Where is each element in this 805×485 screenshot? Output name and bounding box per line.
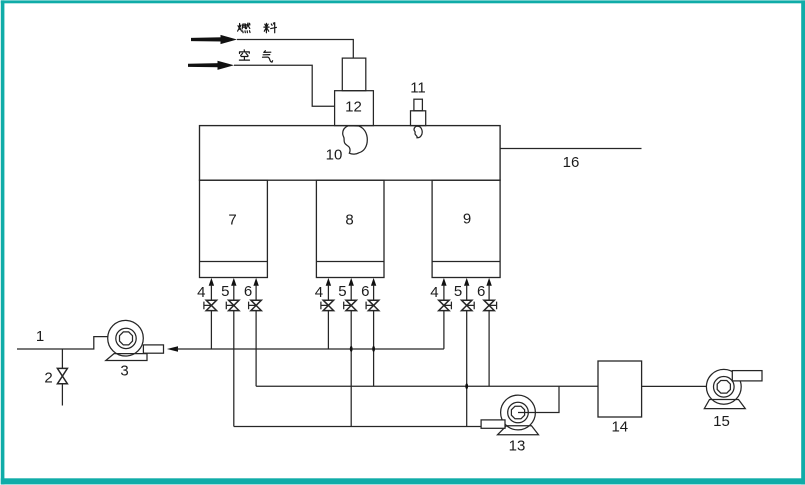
svg-text:5: 5 [221,283,229,300]
fuel inlet arrow [191,35,237,44]
air inlet arrow [188,61,234,70]
wire line 1 inlet [17,337,108,349]
sensor 11 top stem [414,99,423,111]
svg-text:10: 10 [326,147,343,164]
svg-text:6: 6 [244,283,252,300]
valve 5 chamber8 [338,278,356,427]
wire air line to burner side [234,65,335,106]
svg-text:11: 11 [410,80,426,97]
svg-text:3: 3 [120,363,128,380]
valve 6 chamber7 [244,278,261,386]
wire header3 [234,426,481,428]
valve 4 chamber8 [315,278,334,349]
svg-text:14: 14 [611,419,628,436]
label 燃料 (fuel) [238,23,277,33]
svg-text:2: 2 [44,370,52,387]
pump 3 blower [106,320,164,379]
svg-text:4: 4 [315,284,323,301]
svg-text:6: 6 [361,283,369,300]
wire header1 [177,348,444,350]
svg-text:16: 16 [563,154,580,171]
flame 10 blob [343,126,368,154]
valve 6 chamber8 [361,278,379,386]
sensor 11 body [411,111,426,126]
svg-text:4: 4 [430,284,438,301]
border frame right [801,0,805,484]
junction dot v5ch8 [350,346,353,352]
svg-text:6: 6 [477,283,485,300]
wire header2 box14 to pump15 [642,385,707,387]
sensor 11 flame squiggle [414,126,422,138]
burner top box [342,58,366,91]
svg-text:5: 5 [454,283,462,300]
border frame bottom [1,478,805,484]
pump 13 blower [481,386,559,454]
chamber 7 [200,180,268,277]
svg-text:5: 5 [338,283,346,300]
wire 16 outlet line [500,148,641,150]
valve 4 chamber7 [197,278,216,349]
valve 5 chamber9 [454,278,474,427]
valve 2 drain [44,349,67,406]
wire fuel line to burner top [237,40,353,59]
valve 6 chamber9 [477,278,497,386]
border frame left [1,0,5,484]
svg-text:7: 7 [228,212,236,229]
label 空气 (air) [239,50,272,62]
furnace header big rectangle [200,126,501,181]
junction dot v5ch9 on header2 [465,383,468,389]
valve 5 chamber7 [221,278,239,427]
junction dot v6ch8 [372,346,375,352]
svg-text:15: 15 [713,413,730,430]
chamber 9 [432,180,500,277]
pump 15 blower [704,369,762,430]
burner U12 box [335,91,374,126]
valve 4 chamber9 [430,278,451,349]
svg-text:12: 12 [345,99,362,116]
svg-text:1: 1 [36,328,44,345]
chamber 8 [316,180,384,277]
border frame top [1,0,805,3]
svg-text:8: 8 [345,212,353,229]
wire header2 left of box 14 [256,385,598,387]
flow arrow into header [167,346,178,351]
svg-text:9: 9 [463,211,471,228]
box 14 [598,361,642,417]
svg-text:4: 4 [197,284,205,301]
svg-text:13: 13 [509,438,526,455]
